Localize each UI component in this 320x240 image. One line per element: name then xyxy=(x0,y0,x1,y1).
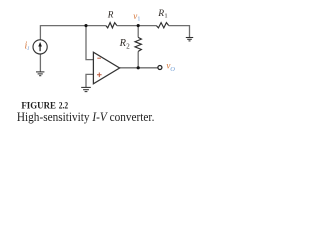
wire left vertical below current source xyxy=(39,54,41,72)
op-amp plus sign xyxy=(97,73,102,78)
ground under current source xyxy=(36,72,44,76)
svg-text:O: O xyxy=(170,66,175,73)
wire R2 vertical top xyxy=(137,26,139,38)
resistor R2 xyxy=(135,37,141,51)
wire from node A down to inverting input xyxy=(86,26,93,60)
op-amp U1 xyxy=(93,52,119,84)
resistor R xyxy=(106,23,117,28)
resistor R1 xyxy=(156,23,168,28)
ground right of R1 xyxy=(186,38,193,41)
wire left vertical above current source xyxy=(39,25,41,39)
current source circle xyxy=(33,40,47,54)
wire top horizontal middle segment xyxy=(117,25,157,27)
wire R2 vertical bottom xyxy=(137,51,139,67)
ground under op-amp plus input xyxy=(81,87,91,91)
wire top horizontal left segment xyxy=(40,25,106,27)
wire noninverting input to ground xyxy=(86,74,93,87)
svg-text:1: 1 xyxy=(137,16,140,23)
svg-text:I: I xyxy=(26,46,30,52)
svg-text:R: R xyxy=(107,10,114,20)
wire output horizontal xyxy=(120,67,158,69)
node junction dot at output xyxy=(137,66,140,69)
svg-text:R: R xyxy=(157,8,164,19)
output terminal circle xyxy=(158,66,162,70)
current source arrow xyxy=(39,46,41,51)
node junction dot A xyxy=(84,24,87,27)
svg-text:2: 2 xyxy=(126,43,130,51)
svg-text:High-sensitivity I-V converter: High-sensitivity I-V converter. xyxy=(17,110,155,124)
node junction dot v1 xyxy=(137,24,140,27)
op-amp minus sign xyxy=(97,57,101,59)
wire top horizontal right segment xyxy=(169,26,190,38)
svg-text:1: 1 xyxy=(164,13,167,20)
